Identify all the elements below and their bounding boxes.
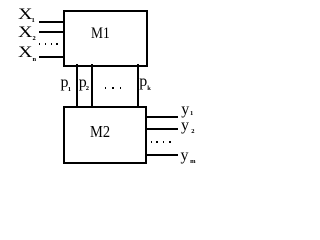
subscript m of ym — [190, 159, 195, 166]
wire ym output — [145, 154, 178, 156]
label Xn — [18, 45, 32, 61]
wire Xn input — [39, 56, 65, 58]
ellipsis between X2 and Xn — [39, 43, 41, 45]
subscript 1 of X1 — [32, 18, 35, 25]
wire p1 — [76, 64, 78, 107]
wire X2 input — [39, 31, 65, 33]
label M1 — [91, 26, 110, 42]
label X1 — [18, 7, 32, 23]
label p2 — [79, 75, 87, 91]
block M2 — [63, 106, 148, 164]
subscript 2 of p2 — [86, 86, 89, 93]
subscript 2 of X2 — [33, 36, 36, 43]
wire pk — [137, 64, 139, 107]
label p1 — [61, 75, 69, 91]
subscript 1 of p1 — [68, 87, 71, 94]
wire X1 input — [39, 21, 65, 23]
subscript n of Xn — [33, 57, 37, 64]
label pk — [139, 74, 147, 90]
label y2 — [181, 118, 189, 134]
ellipsis between y2 and ym — [151, 141, 153, 143]
subscript 2 of y2 — [191, 129, 194, 136]
subscript 1 of y1 — [190, 111, 193, 118]
label M2 — [90, 123, 110, 140]
label X2 — [18, 25, 32, 41]
label y1 — [181, 102, 189, 118]
wire p2 — [91, 64, 93, 107]
label ym — [181, 148, 189, 164]
wire y1 output — [145, 116, 178, 118]
ellipsis between p2 and pk — [105, 87, 107, 89]
block M1 — [63, 10, 148, 67]
subscript k of pk — [147, 86, 151, 93]
wire y2 output — [145, 128, 178, 130]
